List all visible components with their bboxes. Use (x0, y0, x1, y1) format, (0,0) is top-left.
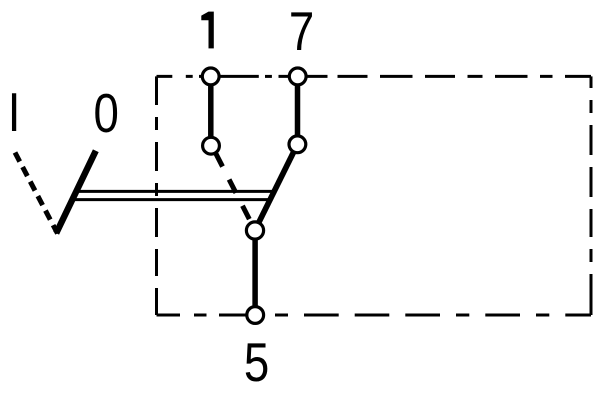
moving contact bridge 5-7 (closed position) (257, 144, 298, 226)
node: terminal 1 (202, 68, 219, 85)
border solid stub through terminal 7 (279, 75, 328, 78)
node: fixed contact 1 (203, 137, 220, 154)
wire: terminal 1 to fixed contact 1 (208, 76, 214, 145)
actuator linkage (double line) (70, 191, 274, 199)
actuator lever, position I (dashed) (15, 153, 58, 234)
terminal label 5 (244, 331, 269, 393)
svg-text:0: 0 (94, 82, 119, 144)
svg-text:7: 7 (289, 0, 314, 62)
border solid stub through terminal 1 (199, 75, 259, 78)
terminal label 1 (201, 12, 214, 49)
position label 0 (94, 82, 119, 144)
switch enclosure top edge (dash-dot) (157, 75, 592, 78)
terminal label 7 (289, 0, 314, 62)
wire: terminal 7 to fixed contact 7 (295, 76, 301, 144)
border short dash between terminals 1 and 7 (265, 75, 272, 78)
node: fixed contact 7 (289, 136, 306, 153)
position label I (8, 81, 21, 143)
border solid stub left of terminal 5 (219, 314, 265, 317)
switch enclosure right edge (dash-dot) (590, 76, 593, 315)
svg-text:5: 5 (244, 331, 269, 393)
node: terminal 7 (289, 68, 306, 85)
node: common contact (246, 222, 263, 239)
switch enclosure bottom edge (dash-dot) (157, 314, 592, 317)
switch enclosure left edge (dash-dot) (155, 76, 158, 315)
moving contact alternate position 5-1 (dashed) (216, 153, 250, 219)
node: terminal 5 (247, 307, 264, 324)
actuator lever, position 0 (solid) (56, 151, 96, 233)
wire: common contact to terminal 5 (252, 231, 258, 316)
svg-text:I: I (8, 81, 21, 143)
